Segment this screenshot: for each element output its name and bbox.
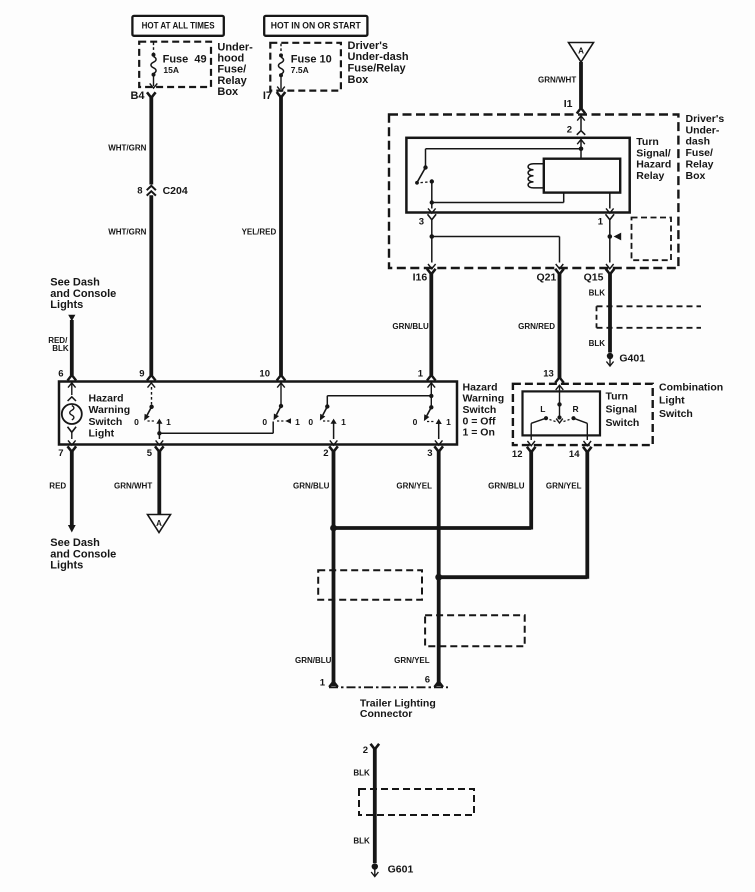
svg-text:Connector: Connector bbox=[360, 708, 413, 720]
connector C204 pin 8 bbox=[137, 185, 188, 197]
switch S4 throw (dashed) bbox=[427, 421, 435, 423]
off-page connector A (bottom triangle) bbox=[148, 515, 171, 533]
wire pin 1 junction to Q15 bbox=[609, 237, 611, 263]
svg-text:Box: Box bbox=[686, 170, 706, 182]
svg-text:GRN/BLU: GRN/BLU bbox=[392, 322, 429, 331]
pin 2 exit arrow bbox=[330, 440, 338, 445]
label GRN/YEL (pin14) bbox=[546, 482, 582, 491]
switch S4 blade bbox=[424, 407, 431, 421]
trailer pin 1 label bbox=[320, 678, 326, 689]
wire WHT/GRN from B4 to C204 bbox=[149, 97, 153, 185]
svg-text:Signal: Signal bbox=[606, 404, 638, 416]
note See Dash and Console Lights (top) bbox=[50, 277, 116, 312]
label RED/BLK bbox=[48, 336, 69, 353]
svg-text:2: 2 bbox=[363, 745, 368, 756]
wire BLK trailer pin 2 to G601 bbox=[373, 749, 377, 864]
svg-text:GRN/YEL: GRN/YEL bbox=[396, 482, 432, 491]
trailer lighting connector boundary bbox=[329, 686, 448, 688]
svg-text:GRN/YEL: GRN/YEL bbox=[394, 656, 430, 665]
svg-text:Switch: Switch bbox=[606, 417, 640, 429]
svg-text:12: 12 bbox=[512, 449, 523, 460]
svg-text:I7: I7 bbox=[263, 90, 272, 102]
wire RED/BLK to hazard pin 6 bbox=[70, 320, 74, 375]
off-page connector A (triangle) bbox=[569, 43, 594, 63]
svg-text:A: A bbox=[578, 47, 584, 56]
relay pin 3 connector bbox=[428, 214, 437, 220]
relay pin 2 entry arrow bbox=[577, 140, 585, 149]
relay internal wire contact to pin 3 bbox=[431, 203, 433, 209]
svg-text:Lights: Lights bbox=[50, 560, 83, 572]
pin 1 entry arrow bbox=[428, 383, 436, 406]
svg-text:C204: C204 bbox=[163, 185, 188, 197]
label BLK (trailer lower) bbox=[353, 837, 370, 846]
switch S1 contact 1 bbox=[156, 419, 162, 424]
svg-text:Box: Box bbox=[217, 86, 239, 98]
Underhood Fuse/Relay Box (dashed) bbox=[139, 42, 211, 87]
label GRN/RED bbox=[518, 322, 555, 331]
label WHT/GRN (upper) bbox=[108, 144, 146, 153]
pin 10 label bbox=[259, 369, 270, 380]
svg-text:0: 0 bbox=[134, 417, 139, 427]
svg-text:WHT/GRN: WHT/GRN bbox=[108, 144, 146, 153]
label YEL/RED bbox=[242, 228, 277, 237]
svg-text:Warning: Warning bbox=[463, 393, 505, 405]
svg-text:7.5A: 7.5A bbox=[291, 65, 309, 75]
svg-text:L: L bbox=[540, 404, 545, 414]
label Under-hood Fuse/Relay Box bbox=[217, 41, 253, 98]
svg-text:Hazard: Hazard bbox=[463, 381, 498, 393]
junction node S1-S2 link bbox=[157, 431, 161, 435]
relay internal wire pin2 to flasher top bbox=[580, 149, 582, 159]
svg-text:Fuse 49: Fuse 49 bbox=[163, 54, 207, 66]
fuse F49 15A bbox=[150, 43, 207, 89]
label Combination Light Switch bbox=[659, 382, 723, 420]
lamp lower terminal (fork) bbox=[68, 427, 77, 439]
svg-text:Q21: Q21 bbox=[536, 272, 556, 284]
svg-text:B4: B4 bbox=[130, 90, 145, 102]
switch S2 position labels bbox=[262, 417, 300, 427]
exit arrow I16 bbox=[428, 264, 436, 269]
wire S3 contact to pin 2 bbox=[333, 423, 335, 440]
svg-text:GRN/WHT: GRN/WHT bbox=[114, 482, 152, 491]
svg-text:Switch: Switch bbox=[659, 408, 693, 420]
relay internal wire from contact to flasher unit bbox=[430, 182, 564, 205]
svg-text:1 = On: 1 = On bbox=[463, 427, 495, 439]
junction node under relay pin 3 bbox=[430, 234, 435, 239]
pin 3 connector bbox=[434, 446, 443, 452]
svg-text:14: 14 bbox=[569, 449, 580, 460]
svg-text:GRN/YEL: GRN/YEL bbox=[546, 482, 582, 491]
label Driver's Under-dash Fuse/Relay Box (right) bbox=[686, 113, 725, 182]
svg-text:G601: G601 bbox=[388, 864, 414, 876]
svg-text:Relay: Relay bbox=[686, 159, 714, 171]
junction node under relay pin 1 bbox=[608, 234, 613, 239]
switch S3 contact 1 bbox=[331, 419, 337, 424]
wire pin 12 to pin 2 junction bbox=[334, 451, 532, 530]
svg-text:Warning: Warning bbox=[89, 404, 131, 416]
wire junction to Q21 drop bbox=[432, 237, 560, 263]
svg-text:RED: RED bbox=[49, 482, 66, 491]
connector I1 at under-dash box bbox=[564, 98, 586, 114]
svg-text:Q15: Q15 bbox=[584, 272, 604, 284]
label BLK (trailer upper) bbox=[353, 769, 370, 778]
pin 12 exit arrow bbox=[527, 441, 535, 446]
wire S1 contact to pin 5 bbox=[158, 423, 160, 440]
wire contact R to pin 14 bbox=[574, 418, 588, 440]
svg-text:1: 1 bbox=[341, 417, 346, 427]
note See Dash and Console Lights (bottom) bbox=[50, 537, 116, 572]
svg-text:A: A bbox=[156, 519, 162, 528]
lamp terminal chevron bbox=[68, 397, 76, 401]
svg-text:5: 5 bbox=[147, 448, 153, 459]
svg-text:3: 3 bbox=[419, 217, 424, 228]
svg-text:6: 6 bbox=[425, 675, 430, 686]
wire YEL/RED from I7 to hazard switch pin 10 bbox=[279, 97, 283, 376]
svg-text:See Dash: See Dash bbox=[50, 277, 100, 289]
svg-text:Fuse 10: Fuse 10 bbox=[291, 54, 332, 66]
connector Q15 bbox=[584, 269, 615, 284]
switch S1 position labels bbox=[134, 417, 171, 427]
svg-text:Switch: Switch bbox=[89, 416, 123, 428]
svg-text:BLK: BLK bbox=[52, 344, 69, 353]
wire contact L to pin 12 bbox=[531, 418, 546, 440]
wire pin 3 junction to I16 bbox=[431, 237, 433, 263]
turn signal switch pivot node bbox=[557, 402, 561, 406]
svg-text:1: 1 bbox=[320, 678, 326, 689]
label Hazard Warning Switch legend bbox=[463, 381, 505, 438]
wire BLK from Q15 to G401 bbox=[608, 274, 612, 353]
off-page arrow to dash lights bbox=[68, 525, 76, 533]
pin 7 exit arrow bbox=[68, 440, 76, 445]
svg-text:Light: Light bbox=[89, 428, 115, 440]
svg-text:6: 6 bbox=[58, 369, 63, 380]
relay pin 1 connector bbox=[606, 214, 615, 220]
svg-text:15A: 15A bbox=[163, 65, 179, 75]
svg-text:Driver's: Driver's bbox=[348, 40, 389, 52]
connector I16 bbox=[413, 269, 436, 284]
svg-text:Light: Light bbox=[659, 395, 685, 407]
pin 2 connector bbox=[329, 446, 338, 452]
svg-text:Fuse/: Fuse/ bbox=[217, 64, 246, 76]
junction node pin1/S3 bbox=[429, 394, 433, 398]
svg-text:GRN/BLU: GRN/BLU bbox=[488, 482, 525, 491]
pin 3 exit arrow bbox=[435, 440, 443, 445]
label WHT/GRN (lower) bbox=[108, 228, 146, 237]
switch S4 contact 1 bbox=[436, 419, 442, 424]
svg-text:0 = Off: 0 = Off bbox=[463, 415, 496, 427]
contact L bbox=[540, 404, 548, 421]
switch S2 throw arrow bbox=[285, 418, 291, 424]
switch S1 blade bbox=[144, 407, 151, 421]
svg-text:Lights: Lights bbox=[50, 299, 83, 311]
wire GRN/BLU from I16 to hazard pin 1 bbox=[429, 274, 433, 376]
unused relay cavity (small dashed box) bbox=[632, 218, 672, 261]
label RED bbox=[49, 482, 66, 491]
svg-text:GRN/RED: GRN/RED bbox=[518, 322, 555, 331]
connector B4 bbox=[130, 90, 155, 102]
in-line connector (dashed, on BLK wire) bbox=[597, 306, 702, 328]
label GRN/YEL (lower) bbox=[394, 656, 430, 665]
wire S1 junction to S2 blade bbox=[159, 422, 273, 434]
wire GRN/BLU from pin 2 (upper) bbox=[332, 451, 336, 686]
power feed label HOT AT ALL TIMES bbox=[132, 16, 223, 36]
svg-text:Signal/: Signal/ bbox=[636, 147, 671, 159]
switch S3 blade bbox=[320, 407, 327, 421]
svg-text:1: 1 bbox=[446, 417, 451, 427]
label GRN/BLU (lower) bbox=[295, 656, 332, 665]
junction node pin2/pin12 bbox=[330, 525, 337, 532]
svg-text:Combination: Combination bbox=[659, 382, 723, 394]
svg-text:2: 2 bbox=[567, 125, 572, 136]
label GRN/WHT (top) bbox=[538, 76, 576, 85]
switch S1 pivot bbox=[149, 405, 153, 409]
wire relay pin 3 down bbox=[431, 219, 433, 237]
relay internal node (junction on pin 2 feed) bbox=[579, 147, 584, 152]
switch S3 position labels bbox=[308, 417, 346, 427]
svg-text:I16: I16 bbox=[413, 272, 428, 284]
combination light switch (dashed) bbox=[513, 384, 653, 445]
pin 9 entry arrow bbox=[148, 383, 156, 388]
wire pin 14 to pin 3 junction bbox=[439, 451, 588, 579]
svg-text:Under-: Under- bbox=[686, 124, 720, 136]
svg-text:3: 3 bbox=[427, 448, 432, 459]
off-page arrow from dash lights bbox=[68, 315, 75, 321]
svg-text:BLK: BLK bbox=[589, 288, 606, 297]
junction node pin3/pin14 bbox=[435, 574, 442, 581]
switch S1 throw (dashed) bbox=[148, 420, 156, 422]
switch S4 pivot bbox=[429, 405, 433, 409]
svg-text:GRN/WHT: GRN/WHT bbox=[538, 76, 576, 85]
wire RED from pin 7 bbox=[70, 451, 74, 526]
relay internal wire to switch pivot bbox=[426, 149, 582, 167]
pin 10 entry arrow bbox=[277, 383, 285, 404]
relay U1 Turn Signal/Hazard Relay (case) bbox=[406, 138, 629, 213]
svg-text:GRN/BLU: GRN/BLU bbox=[295, 656, 332, 665]
pin 13 connector bbox=[555, 377, 564, 383]
svg-text:0: 0 bbox=[262, 417, 267, 427]
in-line connector (dashed) on GRN/YEL bbox=[425, 615, 525, 646]
pin 5 label bbox=[147, 448, 153, 459]
svg-text:10: 10 bbox=[259, 369, 270, 380]
svg-text:Relay: Relay bbox=[217, 75, 247, 87]
svg-text:1: 1 bbox=[295, 417, 300, 427]
label BLK (upper) bbox=[589, 288, 606, 297]
pin 12 connector bbox=[527, 447, 536, 453]
svg-text:BLK: BLK bbox=[589, 339, 606, 348]
pin 9 connector bbox=[147, 375, 156, 381]
wire relay pin 1 down bbox=[609, 219, 611, 237]
turn signal switch blade (center off) bbox=[550, 404, 570, 423]
exit arrow Q15 bbox=[606, 264, 614, 269]
relay pin 2 connector bbox=[567, 125, 585, 136]
switch S2 blade bbox=[274, 406, 281, 420]
svg-text:2: 2 bbox=[323, 448, 328, 459]
switch S2 throw (dashed) bbox=[277, 420, 284, 422]
switch S4 position labels bbox=[413, 417, 452, 427]
Driver's Under-dash Fuse/Relay Box (large dashed) bbox=[389, 115, 678, 269]
pin 7 label bbox=[58, 448, 63, 459]
pin 3 label bbox=[427, 448, 432, 459]
relay pin 1 exit arrow bbox=[598, 208, 614, 227]
svg-text:Hazard: Hazard bbox=[636, 159, 671, 171]
trailer pin 2 label bbox=[363, 745, 368, 756]
pin 13 entry arrow bbox=[556, 385, 564, 404]
svg-text:YEL/RED: YEL/RED bbox=[242, 228, 277, 237]
relay pin 3 exit arrow bbox=[419, 208, 436, 227]
pin 10 connector bbox=[277, 375, 286, 381]
trailer pin 1 connector bbox=[329, 682, 338, 688]
label Turn Signal/Hazard Relay bbox=[636, 136, 671, 182]
svg-text:1: 1 bbox=[418, 369, 424, 380]
in-line connector (dashed) on GRN/BLU bbox=[318, 570, 422, 599]
in-line connector (dashed) on trailer BLK bbox=[359, 789, 474, 815]
hazard warning switch (case) bbox=[59, 382, 457, 445]
label GRN/BLU (I16) bbox=[392, 322, 429, 331]
label BLK (lower) bbox=[589, 339, 606, 348]
wire GRN/RED from Q21 to pin 13 bbox=[558, 274, 562, 378]
trailer pin 6 label bbox=[425, 675, 430, 686]
svg-text:WHT/GRN: WHT/GRN bbox=[108, 228, 146, 237]
switch S3 feed wire bbox=[327, 396, 431, 406]
svg-text:Turn: Turn bbox=[606, 391, 629, 403]
wire WHT/GRN from C204 to hazard switch pin 9 bbox=[149, 195, 153, 375]
svg-text:HOT AT ALL TIMES: HOT AT ALL TIMES bbox=[142, 21, 215, 31]
pin 9 label bbox=[139, 369, 144, 380]
svg-text:I1: I1 bbox=[564, 98, 573, 110]
label GRN/YEL (pin3) bbox=[396, 482, 432, 491]
svg-text:GRN/BLU: GRN/BLU bbox=[293, 482, 330, 491]
label GRN/BLU (pin2) bbox=[293, 482, 330, 491]
pin 1 connector bbox=[427, 375, 436, 381]
svg-text:Fuse/Relay: Fuse/Relay bbox=[348, 63, 407, 75]
switch S3 pivot bbox=[325, 404, 329, 408]
svg-text:Fuse/: Fuse/ bbox=[686, 147, 714, 159]
pin 6 entry arrow bbox=[68, 383, 76, 395]
wire GRN/WHT from A to I1 bbox=[579, 62, 583, 108]
svg-text:7: 7 bbox=[58, 448, 63, 459]
hazard switch light (lamp) bbox=[62, 404, 82, 424]
pin 5 exit arrow bbox=[156, 440, 164, 445]
contact R bbox=[571, 404, 578, 421]
svg-text:13: 13 bbox=[543, 368, 554, 379]
trailer pin 2 connector bbox=[371, 744, 380, 750]
wire GRN/WHT from pin 5 bbox=[157, 451, 161, 515]
turn signal switch (case) bbox=[523, 391, 601, 435]
svg-text:Under-dash: Under-dash bbox=[348, 51, 409, 63]
pin 13 label bbox=[543, 368, 554, 379]
pin 14 connector bbox=[583, 447, 592, 453]
fuse F10 7.5A bbox=[277, 44, 332, 92]
connector I7 bbox=[263, 90, 285, 102]
pin 1 label bbox=[418, 369, 424, 380]
relay coil (winding) bbox=[528, 164, 544, 188]
svg-text:0: 0 bbox=[308, 417, 313, 427]
svg-text:and Console: and Console bbox=[50, 548, 116, 560]
svg-text:and Console: and Console bbox=[50, 288, 116, 300]
svg-text:Hazard: Hazard bbox=[89, 392, 124, 404]
svg-text:Box: Box bbox=[348, 74, 370, 86]
svg-text:8: 8 bbox=[137, 186, 142, 197]
pin 2 label bbox=[323, 448, 328, 459]
label Trailer Lighting Connector bbox=[360, 698, 436, 721]
svg-text:G401: G401 bbox=[619, 352, 645, 364]
svg-text:dash: dash bbox=[686, 136, 711, 148]
svg-text:Turn: Turn bbox=[636, 136, 659, 148]
svg-text:BLK: BLK bbox=[353, 837, 370, 846]
switch S2 pivot bbox=[279, 404, 283, 408]
wire GRN/YEL from pin 3 bbox=[437, 451, 441, 686]
svg-text:BLK: BLK bbox=[353, 769, 370, 778]
pin 6 label bbox=[58, 369, 63, 380]
svg-text:Under-: Under- bbox=[217, 41, 253, 53]
exit arrow Q21 bbox=[556, 264, 564, 269]
svg-text:Switch: Switch bbox=[463, 404, 497, 416]
label Driver's Under-dash Fuse/Relay Box (top) bbox=[348, 40, 409, 86]
label GRN/BLU (pin12) bbox=[488, 482, 525, 491]
label Hazard Warning Switch Light bbox=[89, 392, 131, 439]
label GRN/WHT (pin5) bbox=[114, 482, 152, 491]
svg-text:See Dash: See Dash bbox=[50, 537, 100, 549]
label Turn Signal Switch bbox=[606, 391, 640, 429]
trailer pin 6 connector bbox=[434, 682, 443, 688]
connector Q21 bbox=[536, 269, 563, 284]
svg-text:R: R bbox=[573, 404, 579, 414]
ground G401 bbox=[606, 352, 645, 366]
svg-text:Driver's: Driver's bbox=[686, 113, 725, 125]
ground G601 bbox=[371, 863, 413, 876]
svg-text:0: 0 bbox=[413, 417, 418, 427]
pin 14 exit arrow bbox=[584, 441, 592, 446]
Driver's Under-dash Fuse/Relay Box (dashed, top) bbox=[270, 43, 341, 91]
svg-text:9: 9 bbox=[139, 369, 144, 380]
relay internal wire flasher to pin 1 bbox=[609, 193, 611, 209]
pin 5 connector bbox=[155, 446, 164, 452]
svg-text:hood: hood bbox=[217, 53, 244, 65]
power feed label HOT IN ON OR START bbox=[264, 16, 367, 36]
svg-text:Relay: Relay bbox=[636, 170, 664, 182]
pin 14 label bbox=[569, 449, 580, 460]
wire S4 contact to pin 3 bbox=[438, 423, 440, 440]
branch arrow (to turn signal circuit) bbox=[614, 233, 622, 241]
relay flasher unit (box) bbox=[544, 159, 620, 193]
pin 7 connector bbox=[68, 446, 77, 452]
switch S3 throw (dashed) bbox=[323, 420, 331, 422]
pin 12 label bbox=[512, 449, 523, 460]
svg-text:HOT IN ON OR START: HOT IN ON OR START bbox=[271, 21, 361, 31]
svg-text:1: 1 bbox=[166, 417, 171, 427]
node I1 entry arrow bbox=[577, 116, 585, 130]
switch S1 feed (dashed) bbox=[151, 387, 153, 405]
relay switch S1 (contacts) bbox=[415, 165, 434, 184]
pin 6 connector bbox=[68, 375, 77, 381]
svg-text:1: 1 bbox=[598, 217, 604, 228]
